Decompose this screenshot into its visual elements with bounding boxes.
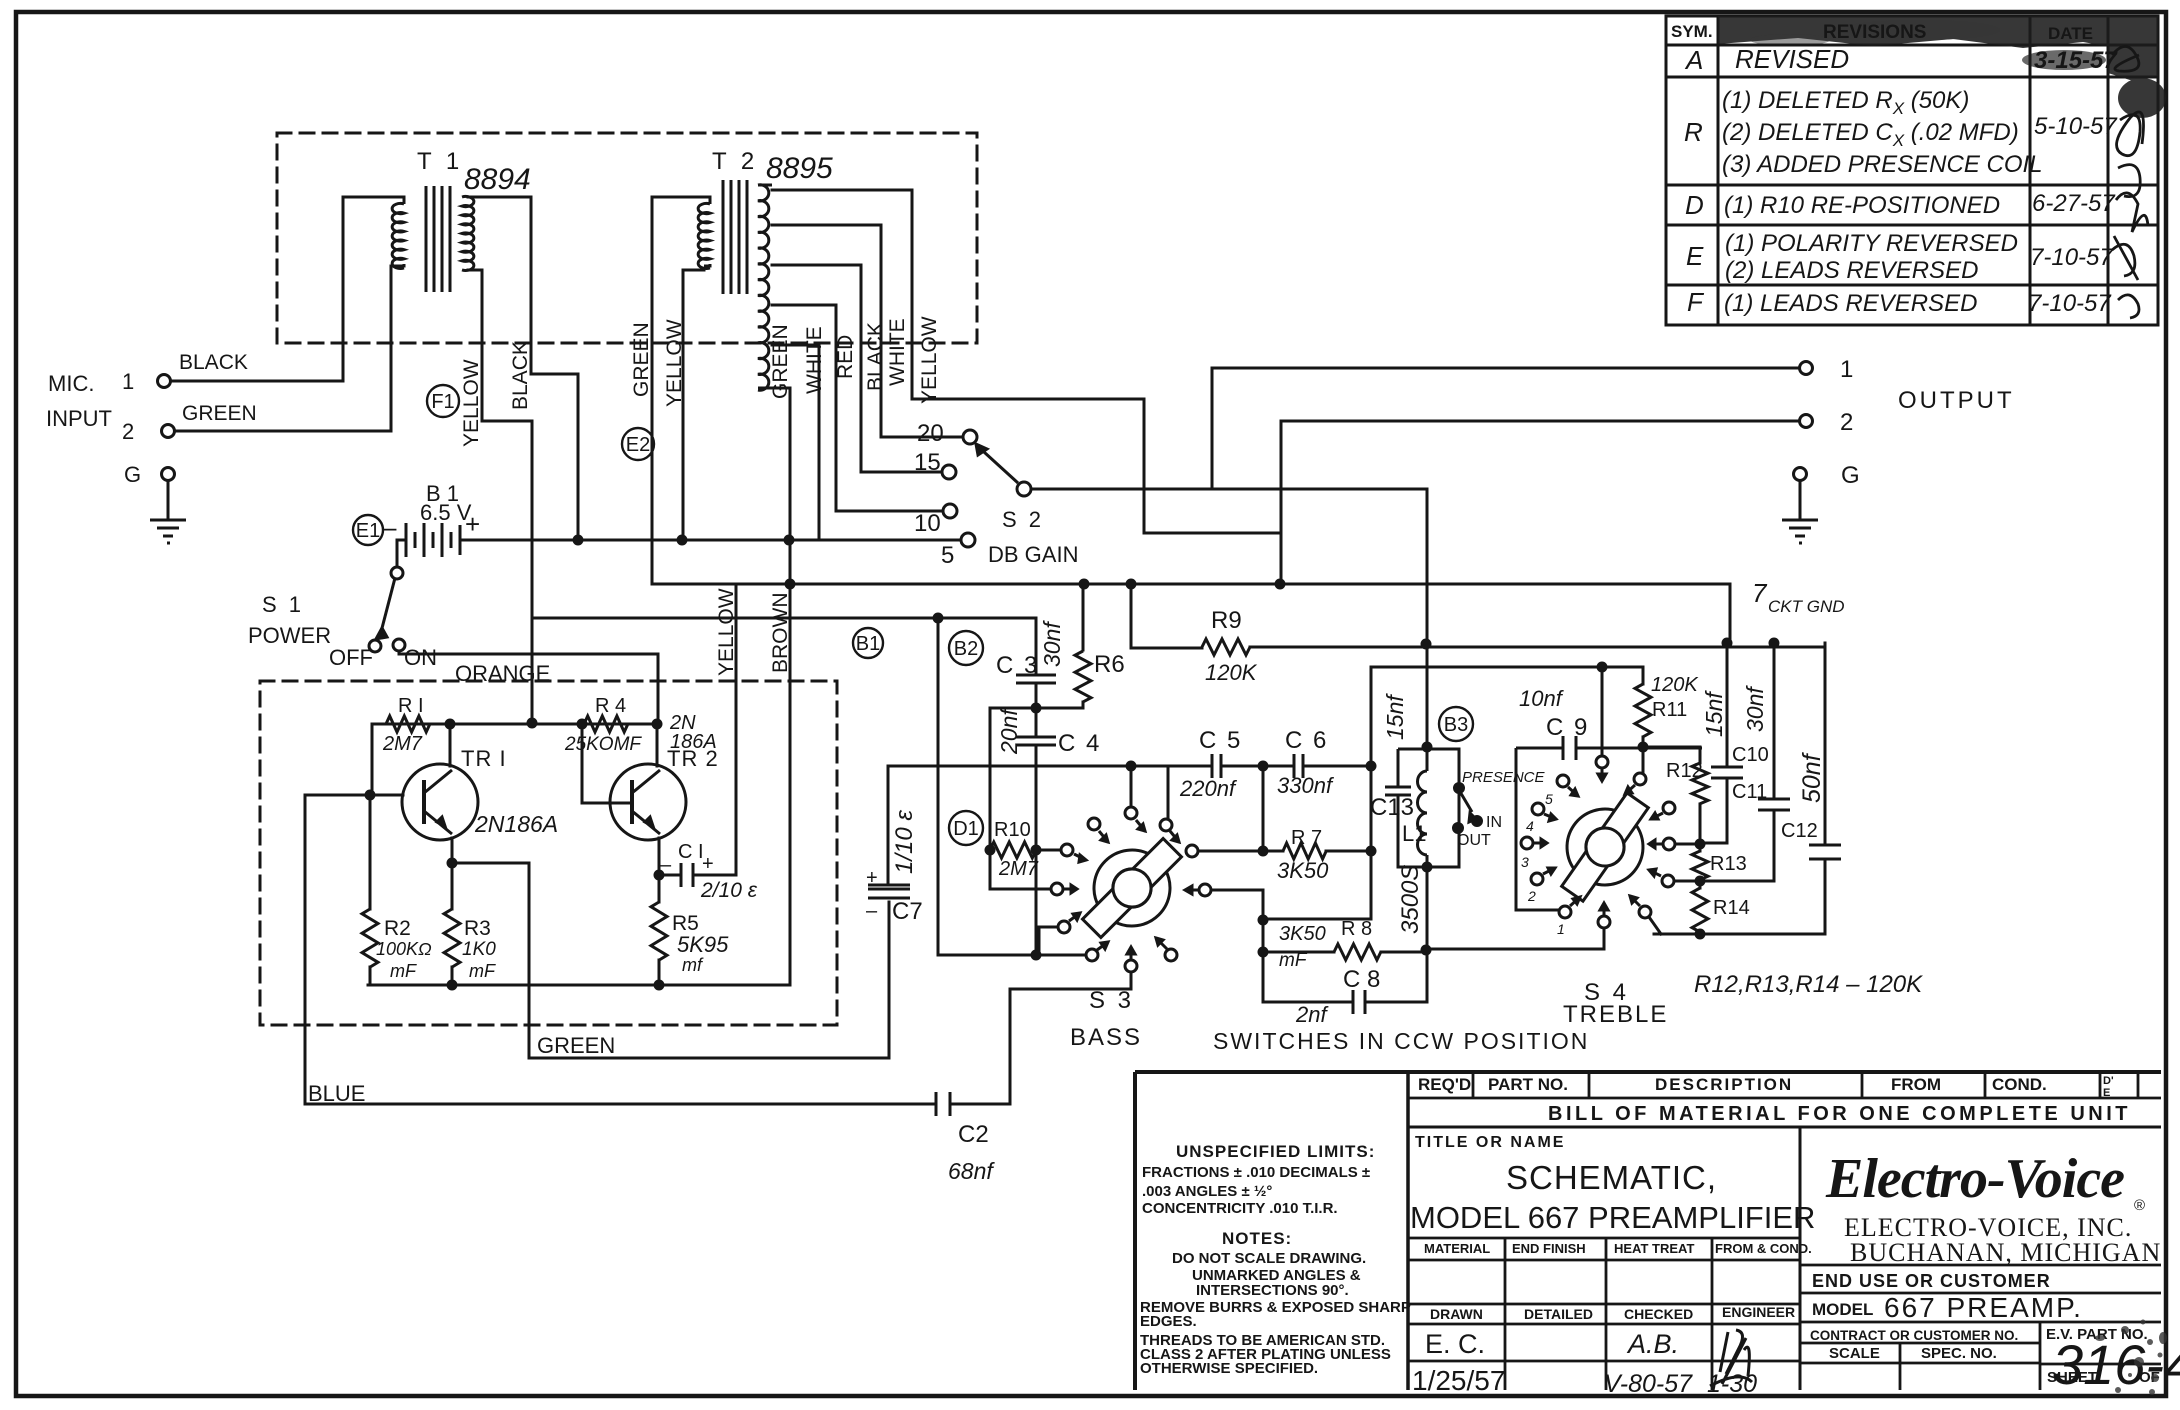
- svg-text:220nf: 220nf: [1179, 776, 1238, 801]
- svg-text:1: 1: [122, 369, 134, 394]
- svg-text:SWITCHES IN CCW POSITION: SWITCHES IN CCW POSITION: [1213, 1028, 1589, 1054]
- wire green run emitter node to C7 bottom: [452, 863, 889, 1058]
- wire T2 tap5 white to battery rail: [772, 345, 819, 540]
- svg-text:L1: L1: [1402, 821, 1426, 846]
- S4 numbers: [1521, 791, 1565, 937]
- transformer T2 core: [723, 180, 747, 294]
- wire R2 bottom to emitter rail: [369, 967, 372, 985]
- wire C1 left lead: [659, 874, 679, 877]
- svg-text:R13: R13: [1710, 853, 1747, 875]
- wire S1 ON contact down to orange run: [399, 651, 658, 723]
- svg-text:20nf: 20nf: [996, 707, 1022, 755]
- battery B1: [406, 523, 460, 557]
- wire y949 run under S4: [1426, 948, 1604, 951]
- switch S2 arm: [984, 452, 1018, 483]
- svg-text:25KOMF: 25KOMF: [564, 734, 642, 755]
- svg-text:50nf: 50nf: [1798, 751, 1826, 803]
- wire mic input 1 to T1 primary top: [170, 197, 398, 381]
- wire node708 left branch to R10 left: [990, 708, 1036, 850]
- svg-text:MODEL: MODEL: [1812, 1300, 1873, 1319]
- title block frame: [1135, 1072, 2161, 1390]
- svg-text:FROM: FROM: [1891, 1075, 1941, 1094]
- wire emitter rail: [368, 984, 790, 987]
- S3 contact arrows: [1064, 820, 1198, 959]
- svg-text:BLACK: BLACK: [864, 322, 887, 391]
- terminal circle mic2: [162, 425, 175, 438]
- svg-text:10: 10: [914, 510, 941, 537]
- svg-text:R14: R14: [1713, 897, 1750, 919]
- switch S3 contact circles: [1125, 807, 1137, 819]
- svg-text:S 2: S 2: [1002, 507, 1044, 532]
- wire R11 bottom node: [1643, 737, 1700, 772]
- resistor R9: [1202, 639, 1250, 655]
- svg-text:B3: B3: [1444, 714, 1468, 736]
- S4 frame box: [1516, 748, 1702, 910]
- svg-text:CHECKED: CHECKED: [1624, 1306, 1693, 1322]
- capacitor C1: [681, 863, 693, 887]
- svg-text:+: +: [702, 853, 714, 875]
- svg-text:C13: C13: [1370, 794, 1414, 821]
- capacitor C2: [936, 1092, 950, 1116]
- svg-text:V-80-57: V-80-57: [1604, 1370, 1693, 1398]
- req'd strip: [1408, 1072, 2161, 1098]
- svg-text:2N186A: 2N186A: [474, 811, 558, 837]
- svg-text:(2) DELETED CX (.02 MFD): (2) DELETED CX (.02 MFD): [1722, 119, 2019, 150]
- left notes column: [1140, 1142, 1411, 1377]
- svg-text:D': D': [2103, 1075, 2114, 1087]
- svg-text:–: –: [660, 854, 672, 876]
- capacitor C8: [1353, 990, 1365, 1014]
- dashed amplifier enclosure box: [260, 681, 837, 1025]
- svg-text:8894: 8894: [464, 163, 531, 196]
- svg-text:–: –: [382, 512, 397, 542]
- wire R13 nodes: [1699, 844, 1702, 881]
- svg-text:667 PREAMP.: 667 PREAMP.: [1884, 1292, 2083, 1323]
- svg-text:BLACK: BLACK: [179, 351, 248, 374]
- wire R6 top to rail: [1082, 584, 1085, 650]
- svg-text:WHITE: WHITE: [803, 326, 826, 394]
- switch S1 circles: [391, 567, 403, 579]
- text: [1140, 1075, 2180, 1398]
- transformer T1 core: [426, 186, 450, 292]
- svg-text:G: G: [1841, 462, 1860, 489]
- svg-text:30nf: 30nf: [1742, 685, 1768, 732]
- svg-text:mF: mF: [469, 961, 496, 981]
- svg-text:2M7: 2M7: [382, 733, 423, 755]
- svg-text:S 3: S 3: [1089, 987, 1134, 1014]
- svg-text:TR I: TR I: [461, 746, 507, 771]
- svg-text:R 4: R 4: [595, 695, 626, 717]
- wire R11 top lead: [1642, 667, 1645, 684]
- svg-text:3-15-57: 3-15-57: [2034, 47, 2118, 74]
- wire output ground lead: [1799, 481, 1802, 518]
- svg-text:BLUE: BLUE: [308, 1081, 365, 1106]
- wire TR1 emitter to node: [451, 838, 454, 863]
- svg-text:IN: IN: [1486, 814, 1502, 831]
- inductor L1 coil: [1418, 771, 1428, 855]
- svg-text:B2: B2: [954, 638, 978, 660]
- material strip: [1408, 1238, 1800, 1304]
- svg-text:FROM & COND.: FROM & COND.: [1715, 1241, 1812, 1256]
- svg-text:G: G: [124, 462, 141, 487]
- svg-text:E. C.: E. C.: [1425, 1329, 1485, 1359]
- svg-text:E1: E1: [356, 520, 380, 542]
- capacitor C3: [1016, 675, 1056, 683]
- wire S4 bottom contact drop: [1603, 928, 1606, 949]
- revision rows text: [1684, 44, 2118, 317]
- resistor R4: [584, 716, 628, 732]
- transformer T1 secondary coil: [462, 196, 474, 270]
- svg-text:OFF: OFF: [329, 645, 373, 670]
- svg-text:BILL OF MATERIAL FOR ONE COMPL: BILL OF MATERIAL FOR ONE COMPLETE UNIT: [1548, 1103, 2131, 1125]
- approval scribbles: [2112, 46, 2148, 318]
- svg-text:R10: R10: [994, 819, 1031, 841]
- svg-text:D1: D1: [953, 818, 979, 840]
- wire output2 riser: [1281, 420, 1799, 423]
- svg-text:TREBLE: TREBLE: [1563, 1001, 1668, 1028]
- ground symbol output: [1782, 520, 1818, 543]
- resistor R7: [1283, 843, 1326, 859]
- svg-text:T 1: T 1: [417, 148, 463, 175]
- wire C3 bottom node to C4: [1035, 684, 1038, 737]
- svg-text:DATE: DATE: [2048, 24, 2093, 43]
- svg-text:(3) ADDED PRESENCE COIL: (3) ADDED PRESENCE COIL: [1722, 151, 2043, 178]
- wire T2 tap3 to S2 15: [772, 265, 942, 472]
- wire battery minus to S1: [397, 540, 406, 567]
- svg-text:MODEL 667 PREAMPLIFIER: MODEL 667 PREAMPLIFIER: [1410, 1200, 1815, 1235]
- svg-text:2: 2: [1527, 888, 1536, 904]
- svg-text:B1: B1: [856, 633, 880, 655]
- wire bass feed rail y766: [888, 765, 1371, 768]
- wire S4 corner contact diagonal: [1649, 917, 1661, 934]
- svg-text:1/10 ε: 1/10 ε: [891, 810, 918, 874]
- svg-text:R2: R2: [384, 917, 411, 940]
- capacitor C12: [1809, 845, 1841, 859]
- wire S4 right contact wires: [1674, 844, 1700, 881]
- svg-text:SCALE: SCALE: [1829, 1345, 1880, 1362]
- resistor R12: [1692, 763, 1708, 804]
- svg-text:R3: R3: [464, 917, 491, 940]
- switch S4 contact circles: [1557, 775, 1569, 787]
- wire T2 secondary bottom GREEN-BROWN down to emitter rail: [770, 388, 790, 985]
- svg-text:E: E: [1686, 241, 1704, 271]
- wire C12 branch: [1654, 643, 1825, 934]
- photocopy speckles: [2095, 1320, 2167, 1396]
- svg-text:30nf: 30nf: [1039, 620, 1065, 667]
- wire S2 common to treble feed vertical: [1031, 489, 1427, 643]
- svg-text:INTERSECTIONS 90°.: INTERSECTIONS 90°.: [1196, 1282, 1349, 1299]
- capacitor C6: [1294, 754, 1303, 778]
- wire TR2 collector: [656, 724, 659, 766]
- wire R3 bottom: [451, 967, 454, 985]
- svg-text:(1) POLARITY REVERSED: (1) POLARITY REVERSED: [1725, 230, 2018, 257]
- wire S3 lower-left contact L: [1039, 927, 1058, 955]
- svg-text:+: +: [465, 509, 480, 539]
- svg-text:R: R: [1684, 117, 1703, 147]
- svg-text:CKT GND: CKT GND: [1768, 597, 1845, 616]
- revisions table frame: [1666, 16, 2158, 325]
- drawn strip: [1408, 1304, 1800, 1390]
- svg-text:RED: RED: [834, 335, 857, 379]
- wire R12 bottom to node: [1699, 804, 1702, 844]
- svg-text:GREEN: GREEN: [769, 324, 792, 399]
- svg-text:INPUT: INPUT: [46, 406, 112, 431]
- wire R14 nodes: [1699, 881, 1702, 934]
- svg-text:(1) DELETED RX (50K): (1) DELETED RX (50K): [1722, 87, 1969, 118]
- svg-text:R6: R6: [1094, 651, 1125, 678]
- svg-text:DB GAIN: DB GAIN: [988, 542, 1078, 567]
- svg-text:2: 2: [122, 419, 134, 444]
- svg-text:C10: C10: [1732, 744, 1769, 766]
- svg-text:REVISIONS: REVISIONS: [1823, 22, 1926, 43]
- engineer scribble: [1720, 1330, 1749, 1376]
- svg-text:BASS: BASS: [1070, 1024, 1142, 1051]
- wire output1: [1212, 367, 1799, 370]
- wire R1 left lead down to TR1 base node: [371, 724, 374, 795]
- svg-text:OUTPUT: OUTPUT: [1898, 387, 2015, 414]
- svg-text:100KΩ: 100KΩ: [376, 939, 432, 959]
- wire R9 feed drop: [1130, 584, 1133, 648]
- wire T2 primary bottom YELLOW: [683, 270, 704, 540]
- svg-text:ENGINEER: ENGINEER: [1722, 1304, 1795, 1320]
- svg-text:NOTES:: NOTES:: [1222, 1229, 1292, 1248]
- right side rows: [1800, 1265, 2161, 1322]
- wire S4 top feed drop: [1601, 667, 1604, 755]
- wire R3 from node: [451, 863, 454, 909]
- svg-text:1K0: 1K0: [462, 939, 496, 960]
- resistor R14: [1692, 888, 1708, 932]
- resistor R6: [1075, 651, 1091, 702]
- svg-text:2M7: 2M7: [998, 858, 1039, 880]
- wire S3 top contact drop: [1130, 766, 1133, 807]
- svg-text:SPEC. NO.: SPEC. NO.: [1921, 1345, 1997, 1362]
- capacitor C13: [1385, 787, 1411, 795]
- svg-text:15: 15: [914, 449, 941, 476]
- junction dots: [365, 535, 1780, 991]
- resistor R1: [386, 716, 430, 732]
- circled reference designators: [353, 385, 1473, 845]
- wire L1 outer left vertical: [1263, 667, 1371, 919]
- svg-text:C 3: C 3: [996, 652, 1039, 679]
- svg-text:mf: mf: [682, 955, 704, 975]
- resistor R2: [362, 909, 378, 967]
- svg-text:S 1: S 1: [262, 592, 304, 617]
- wire TR1 base line: [305, 794, 403, 797]
- ground symbol mic: [150, 520, 186, 543]
- svg-text:mF: mF: [1279, 950, 1308, 971]
- wire y667 presence line: [1371, 666, 1643, 669]
- svg-text:TITLE OR NAME: TITLE OR NAME: [1415, 1134, 1565, 1151]
- wire R7 line: [1198, 850, 1371, 853]
- terminal circle output2: [1800, 415, 1813, 428]
- svg-text:8895: 8895: [766, 152, 833, 185]
- wire branch x938 down to S3 contact line: [938, 618, 1086, 955]
- wire C2 right lead: [950, 1103, 1010, 1106]
- svg-text:mF: mF: [390, 961, 417, 981]
- switch S4 rotor: [1548, 790, 1663, 905]
- svg-text:YELLOW: YELLOW: [715, 588, 738, 676]
- resistor R3: [444, 909, 460, 967]
- svg-text:(1) R10 RE-POSITIONED: (1) R10 RE-POSITIONED: [1724, 192, 2000, 219]
- wire TR1 collector: [449, 724, 452, 766]
- wire TR2 base drop from R4 left node: [582, 724, 630, 803]
- svg-text:6.5 V: 6.5 V: [420, 500, 472, 525]
- capacitor C7: [868, 885, 910, 898]
- terminal circle micG: [162, 468, 175, 481]
- transformer T2 primary coil: [698, 203, 710, 268]
- wire S3 955 contact stub: [1036, 954, 1086, 957]
- wire node line y618 to C3: [532, 618, 1036, 674]
- svg-text:ORANGE: ORANGE: [455, 661, 550, 686]
- svg-text:OUT: OUT: [1457, 832, 1491, 849]
- svg-text:DESCRIPTION: DESCRIPTION: [1655, 1075, 1793, 1094]
- transformer T2 secondary coil: [758, 185, 769, 390]
- wire R10 right node to S3 contact: [1036, 849, 1061, 852]
- svg-text:C 4: C 4: [1058, 730, 1101, 757]
- svg-text:2/10 ε: 2/10 ε: [700, 879, 758, 902]
- transistor TR1: [402, 764, 478, 840]
- wire C10 branch: [1700, 643, 1727, 843]
- svg-text:C I: C I: [678, 841, 704, 863]
- capacitor C11: [1758, 799, 1790, 810]
- svg-text:DRAWN: DRAWN: [1430, 1306, 1483, 1322]
- svg-text:7-10-57: 7-10-57: [2028, 290, 2112, 317]
- svg-text:MATERIAL: MATERIAL: [1424, 1241, 1490, 1256]
- svg-text:1/25/57: 1/25/57: [1412, 1365, 1505, 1396]
- svg-text:2nf: 2nf: [1295, 1002, 1329, 1027]
- title row divider: [1799, 1127, 1802, 1390]
- wire R9 line to treble rail: [1131, 647, 1825, 648]
- svg-text:7-10-57: 7-10-57: [2030, 244, 2114, 271]
- svg-text:SYM.: SYM.: [1671, 22, 1713, 41]
- wire C4 bottom to R10 right node: [1035, 745, 1038, 955]
- capacitor C4: [1016, 737, 1056, 745]
- svg-text:(2) LEADS REVERSED: (2) LEADS REVERSED: [1725, 257, 1978, 284]
- svg-text:C 8: C 8: [1343, 966, 1380, 993]
- svg-text:SCHEMATIC,: SCHEMATIC,: [1506, 1159, 1717, 1196]
- svg-text:3K50: 3K50: [1279, 923, 1326, 945]
- S4 contact arrows: [1534, 769, 1663, 915]
- svg-text:BUCHANAN, MICHIGAN: BUCHANAN, MICHIGAN: [1850, 1238, 2161, 1267]
- resistor R5: [651, 902, 667, 960]
- wire C7 top lead: [887, 766, 890, 885]
- svg-text:5: 5: [1545, 791, 1553, 807]
- svg-text:5: 5: [941, 542, 954, 569]
- wire T1 secondary top BLACK: [468, 197, 578, 543]
- wire R1 R4 base line: [372, 723, 657, 726]
- svg-text:R 8: R 8: [1341, 918, 1372, 940]
- wire mic ground lead: [167, 480, 170, 518]
- switch S3 rotor: [1083, 839, 1182, 938]
- wire T2 tap2 to S2 20: [772, 225, 963, 437]
- terminal circle output1: [1800, 362, 1813, 375]
- wire T2 primary top GREEN joining main rail: [652, 197, 1730, 643]
- svg-text:YELLOW: YELLOW: [460, 359, 483, 447]
- wire S1 arm diagonal: [381, 578, 395, 632]
- svg-text:186A: 186A: [670, 731, 717, 753]
- svg-text:R11: R11: [1652, 699, 1687, 721]
- svg-text:F: F: [1687, 287, 1705, 317]
- svg-text:1: 1: [1840, 356, 1853, 383]
- svg-text:COND.: COND.: [1992, 1075, 2047, 1094]
- wire T2 tap4 to S2 10: [772, 305, 943, 511]
- wire C5C6 mid node down to R7: [1262, 766, 1265, 851]
- svg-text:BROWN: BROWN: [769, 593, 792, 674]
- wire T1 secondary bottom YELLOW down to node: [468, 270, 532, 723]
- svg-text:15nf: 15nf: [1382, 693, 1408, 740]
- svg-text:A.B.: A.B.: [1626, 1329, 1679, 1359]
- svg-text:3: 3: [1521, 854, 1529, 870]
- svg-text:PRESENCE: PRESENCE: [1462, 769, 1546, 786]
- svg-text:T 2: T 2: [712, 148, 758, 175]
- svg-text:5-10-57: 5-10-57: [2034, 113, 2118, 140]
- svg-text:3500S: 3500S: [1397, 865, 1424, 934]
- svg-text:C 9: C 9: [1546, 714, 1589, 741]
- svg-text:C 5: C 5: [1199, 727, 1242, 754]
- svg-text:5K95: 5K95: [677, 932, 729, 957]
- svg-text:C12: C12: [1781, 820, 1818, 842]
- svg-text:YELLOW: YELLOW: [663, 319, 686, 407]
- svg-text:2: 2: [1840, 409, 1853, 436]
- svg-text:MIC.: MIC.: [48, 371, 94, 396]
- header smudge band: [1718, 16, 2166, 118]
- svg-text:DO NOT SCALE DRAWING.: DO NOT SCALE DRAWING.: [1172, 1250, 1366, 1267]
- wire R2 from base node down: [369, 795, 372, 909]
- svg-text:10nf: 10nf: [1519, 686, 1565, 711]
- wire T2 tap1 yellow to S2 region: [772, 190, 1281, 533]
- svg-text:PART NO.: PART NO.: [1488, 1075, 1568, 1094]
- svg-text:END USE OR CUSTOMER: END USE OR CUSTOMER: [1812, 1271, 2051, 1291]
- svg-text:REQ'D: REQ'D: [1418, 1075, 1471, 1094]
- svg-text:®: ®: [2134, 1197, 2145, 1214]
- wire output2 vertical: [1280, 421, 1283, 584]
- svg-text:D: D: [1685, 190, 1704, 220]
- wire contact to R7 bypass: [1211, 890, 1263, 952]
- wire C5 left branch contact: [1167, 766, 1170, 819]
- svg-text:68nf: 68nf: [948, 1158, 995, 1184]
- svg-text:6-27-57: 6-27-57: [2032, 190, 2116, 217]
- wire C8 loop: [1263, 952, 1427, 1002]
- wire S3 bottom contact to blue riser: [1010, 972, 1131, 1104]
- svg-text:7: 7: [1752, 578, 1768, 608]
- svg-text:REVISED: REVISED: [1735, 44, 1849, 74]
- svg-text:R I: R I: [398, 695, 424, 717]
- svg-text:GREEN: GREEN: [182, 402, 257, 425]
- svg-text:+: +: [866, 867, 878, 889]
- svg-text:END FINISH: END FINISH: [1512, 1241, 1586, 1256]
- svg-text:ON: ON: [404, 645, 437, 670]
- capacitor C5: [1212, 754, 1221, 778]
- svg-text:120K: 120K: [1205, 660, 1258, 685]
- svg-text:DETAILED: DETAILED: [1524, 1306, 1593, 1322]
- switch S1 arrowhead: [376, 628, 387, 639]
- capacitor C9: [1563, 736, 1576, 760]
- resistor R13: [1692, 851, 1708, 880]
- svg-text:CONTRACT OR CUSTOMER NO.: CONTRACT OR CUSTOMER NO.: [1810, 1328, 2018, 1343]
- svg-text:.003 ANGLES ± ½°: .003 ANGLES ± ½°: [1142, 1183, 1272, 1200]
- svg-text:(1) LEADS REVERSED: (1) LEADS REVERSED: [1724, 290, 1977, 317]
- svg-text:C7: C7: [892, 898, 923, 925]
- transistor TR2: [610, 764, 686, 840]
- svg-text:SHEET: SHEET: [2047, 1369, 2097, 1386]
- TABLES: [1666, 16, 2166, 325]
- svg-text:20: 20: [917, 420, 944, 447]
- svg-text:YELLOW: YELLOW: [918, 316, 941, 404]
- header labels: [1671, 22, 2093, 43]
- svg-text:R 7: R 7: [1291, 827, 1322, 849]
- terminal circle mic1: [158, 375, 171, 388]
- L1 C13 box: [1398, 749, 1459, 867]
